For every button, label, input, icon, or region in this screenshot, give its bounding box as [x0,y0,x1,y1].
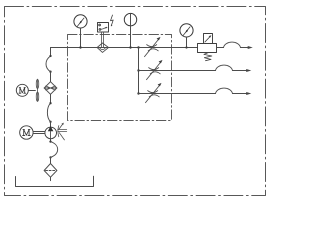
arrow: branch 1 outlet [248,46,253,49]
hose: flexible hose upper (arc with end dots) [46,56,51,72]
wire: pump suction down [50,139,52,142]
wire: branch 1 output with hose hump [217,47,224,49]
motor M2 (pump drive motor) [20,126,33,139]
valve PRV1 (proportional pressure valve body) [198,44,217,53]
wire: branch line 2 [139,70,216,72]
wire: PS1 double stem to damper [101,32,103,48]
damper D1 (gauge isolator diamond on manifold) [97,43,108,52]
power unit enclosure (dash-dot box) [68,35,172,121]
arrow: branch 2 outlet [246,69,251,72]
wire: supply down-drop to branches [138,48,140,94]
wire: strainer tail into tank [50,177,52,180]
filter F1 (suction strainer diamond) [44,164,57,178]
wire: branch 2 hose hump [216,65,233,70]
wire: cooler to hose segment [50,94,52,103]
throttle valve TV3 (variable restrictor, branch 3) [146,84,161,103]
pump P1 (variable displacement pump circle) [45,127,57,139]
wire: gauge PG1 stem [80,28,82,48]
wire: left riser from manifold down [50,48,52,57]
pump P1 compensator marks (arc, double line, arrows) [58,124,67,140]
cooler HE1 (diamond heat exchanger) [44,82,57,95]
shaft: motor M2 to pump (double line) [33,131,45,133]
throttle valve TV1 (variable restrictor, branch 1) [145,38,160,57]
outer machine boundary (dash-dot frame) [5,7,266,196]
node: junction TG1/manifold [129,46,131,48]
wire: riser segment into cooler [50,72,52,82]
valve PRV1 spring [204,53,212,61]
wire: branch 3 hose hump [216,88,233,93]
fan FN1 (two-blade propeller) [36,79,39,101]
motor M1 (fan drive motor) [16,84,28,96]
throttle valve TV2 (variable restrictor, branch 2) [147,61,162,80]
gauge TG1 (thermometer circle) [124,13,136,25]
electric actuation zigzag at PS1 [111,15,114,26]
tank T1 (reservoir bracket) [16,176,94,186]
wire: hose to strainer [50,157,52,163]
node: junction supply drop [137,46,139,48]
hose: flexible hose middle (arc with end dots) [47,103,50,122]
hose: flexible suction hose (arc with end dots) [51,142,58,158]
node: junction PG1/manifold [79,46,81,48]
node: junction branch 3 [137,92,139,94]
gauge PG1 (pressure gauge) [74,15,87,28]
node: junction branch 2 [137,69,139,71]
node: junction PG2/branch1 [185,46,187,48]
wire: main manifold line P [51,47,198,49]
wire: thermometer stem through circle to manifold [130,14,132,48]
wire: hose into pump port [50,122,52,128]
pump P1 flow triangle [48,126,54,131]
wire: gauge PG2 stem [186,37,188,48]
valve PRV1 pilot head with arrow [204,34,213,44]
arrow: branch 3 outlet [246,92,251,95]
shaft: motor M1 to fan [28,90,35,92]
wire: branch line 3 [139,93,216,95]
pressure switch PS1 (box with contacts) [98,23,109,33]
gauge PG2 (pressure gauge, branch 1 right) [180,24,193,37]
